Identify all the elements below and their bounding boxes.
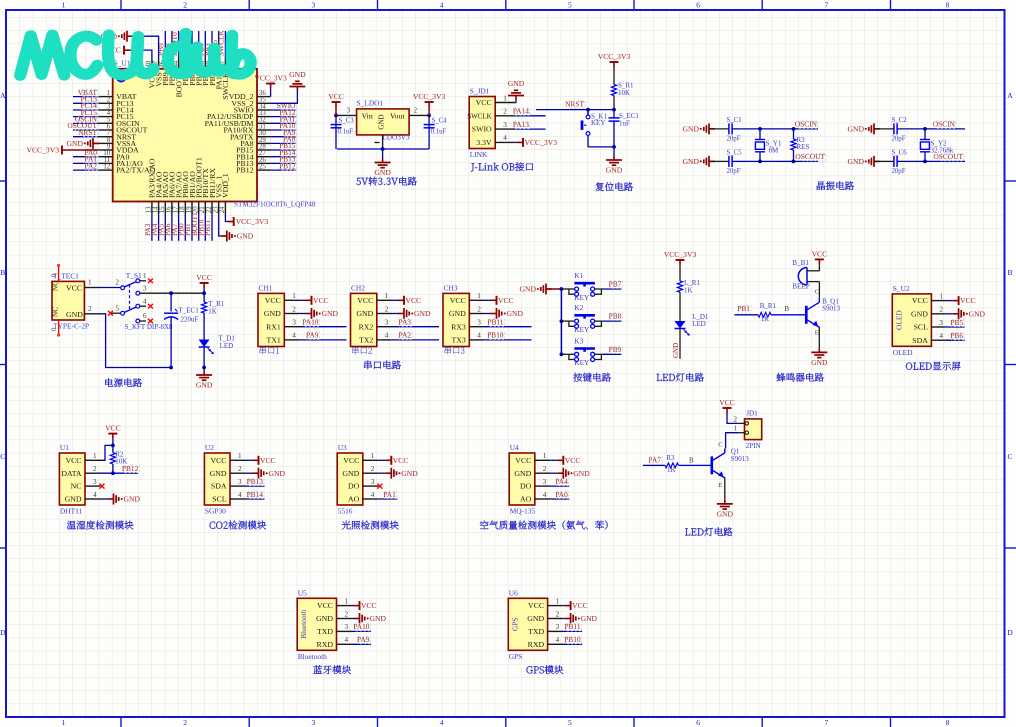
svg-text:2: 2	[543, 465, 547, 473]
svg-text:20pF: 20pF	[892, 168, 906, 175]
svg-text:0: 0	[51, 327, 58, 331]
svg-text:GND: GND	[269, 469, 286, 478]
svg-text:PB9: PB9	[609, 345, 622, 354]
svg-text:3: 3	[238, 478, 242, 486]
svg-text:2: 2	[371, 465, 375, 473]
svg-text:RES: RES	[797, 143, 810, 151]
svg-text:VCC_3V3: VCC_3V3	[27, 146, 60, 155]
svg-text:GND: GND	[683, 157, 700, 166]
svg-text:GND: GND	[969, 309, 986, 318]
svg-text:PB10: PB10	[564, 635, 581, 644]
wire nrst junction to cap	[586, 108, 590, 112]
svg-text:S_JD1: S_JD1	[470, 87, 490, 96]
svg-text:OSCIN: OSCIN	[933, 120, 956, 129]
svg-text:1: 1	[503, 94, 507, 102]
net PB11 at CH3 pin3	[484, 318, 532, 327]
svg-text:VCC: VCC	[393, 456, 409, 465]
svg-text:24: 24	[219, 206, 226, 213]
svg-text:3: 3	[345, 623, 349, 631]
vcc at U6 pin1	[563, 601, 588, 610]
svg-text:VCC_3V3: VCC_3V3	[254, 74, 287, 83]
svg-text:PA14: PA14	[513, 107, 529, 116]
vcc buzzer	[812, 249, 828, 270]
svg-text:3: 3	[93, 478, 97, 486]
svg-text:1K: 1K	[208, 308, 217, 316]
svg-text:4: 4	[477, 332, 481, 340]
svg-text:4: 4	[385, 332, 389, 340]
svg-text:VCC_3V3: VCC_3V3	[525, 138, 558, 147]
wire led middle	[679, 292, 681, 321]
svg-text:U4: U4	[510, 443, 519, 452]
net PA7 led2	[643, 455, 665, 465]
svg-text:S_C4: S_C4	[432, 117, 448, 124]
net PA9 at U5 pin4	[352, 635, 371, 644]
svg-text:MQ-135: MQ-135	[510, 507, 536, 516]
svg-text:5: 5	[116, 304, 120, 312]
net PA9 at CH1 pin4	[299, 331, 347, 340]
typec gnd pin 2 wire down to rail	[84, 305, 171, 368]
svg-text:S_C6: S_C6	[892, 149, 908, 156]
svg-text:2: 2	[503, 108, 507, 116]
gnd at oled pin2	[946, 308, 986, 319]
key K3	[561, 337, 622, 367]
resistor B_R1 1K	[758, 302, 777, 323]
mcu top pins 37-48	[146, 29, 231, 99]
capacitor S_C6 20pF	[874, 149, 907, 175]
svg-text:PB10: PB10	[487, 331, 504, 340]
svg-text:1: 1	[88, 279, 92, 287]
gnd crystal top	[683, 123, 715, 134]
svg-text:SWCLK: SWCLK	[467, 112, 492, 120]
serial CH3 body	[443, 283, 484, 346]
key K1	[561, 272, 622, 302]
svg-text:PB11: PB11	[203, 220, 212, 236]
svg-text:U1: U1	[60, 443, 69, 452]
svg-text:4: 4	[371, 491, 375, 499]
svg-text:CH3: CH3	[444, 283, 458, 292]
svg-text:RX3: RX3	[451, 322, 466, 331]
svg-text:1: 1	[345, 597, 349, 605]
wire buzzer to collector	[818, 282, 820, 298]
vcc at mcu pin 48 top	[105, 46, 152, 58]
gnd at U4 pin2	[550, 468, 590, 479]
serial CH2 body	[351, 283, 392, 346]
gnd power circuit	[196, 368, 213, 390]
svg-text:GND: GND	[508, 79, 525, 88]
svg-text:STM32F103C8T6_LQFP48: STM32F103C8T6_LQFP48	[234, 201, 316, 209]
svg-text:A: A	[1007, 91, 1013, 100]
svg-text:VCC: VCC	[812, 249, 828, 258]
svg-text:32.768k: 32.768k	[931, 147, 954, 155]
svg-text:RXD: RXD	[528, 640, 545, 649]
svg-text:1: 1	[93, 452, 97, 460]
serial1 label	[260, 347, 279, 355]
svg-text:VCC: VCC	[313, 296, 329, 305]
capacitor S_C1 20pF	[709, 117, 742, 142]
svg-text:GND: GND	[520, 285, 537, 294]
crystal S_Y1 8M	[755, 127, 782, 163]
svg-text:4: 4	[440, 1, 444, 10]
svg-text:C: C	[1007, 452, 1012, 461]
svg-text:NC: NC	[52, 307, 60, 317]
crystal S_Y2 32.768k	[920, 127, 954, 163]
svg-text:4: 4	[345, 636, 349, 644]
led L_D1	[675, 313, 709, 336]
svg-text:PB1: PB1	[737, 304, 750, 313]
svg-text:2: 2	[88, 305, 92, 313]
mcu right pins 25-36	[205, 90, 297, 175]
key bus wire	[546, 287, 563, 356]
svg-text:SDA: SDA	[211, 482, 227, 491]
svg-text:GND: GND	[264, 309, 281, 318]
svg-text:GND: GND	[316, 614, 333, 623]
svg-text:VCC: VCC	[265, 296, 281, 305]
svg-text:PB5: PB5	[950, 318, 963, 327]
svg-text:PB13: PB13	[247, 477, 264, 486]
svg-text:OSCOUT: OSCOUT	[795, 152, 825, 161]
svg-text:DHT11: DHT11	[60, 507, 83, 516]
svg-text:VCC: VCC	[476, 98, 492, 107]
svg-text:GND: GND	[342, 469, 359, 478]
vcc at U5 pin1	[352, 601, 377, 610]
svg-text:S_C5: S_C5	[727, 149, 743, 156]
connector JD1 2PIN	[734, 410, 762, 451]
svg-text:VCC: VCC	[719, 398, 735, 407]
net NRST wire	[536, 100, 616, 112]
svg-text:PA0: PA0	[555, 490, 568, 499]
svg-text:VCC: VCC	[406, 296, 422, 305]
gnd at mcu pin 35	[271, 70, 307, 103]
svg-text:12: 12	[103, 164, 110, 171]
svg-text:U3: U3	[338, 443, 347, 452]
svg-text:2: 2	[292, 305, 296, 313]
svg-text:3: 3	[385, 319, 389, 327]
svg-text:2: 2	[385, 305, 389, 313]
svg-text:K1: K1	[574, 272, 583, 280]
svg-text:1: 1	[143, 272, 147, 280]
svg-text:VCC_3V3: VCC_3V3	[236, 217, 269, 226]
ldo pin wires	[334, 107, 431, 151]
svg-text:VCC: VCC	[196, 273, 212, 282]
svg-text:VCC: VCC	[328, 92, 344, 101]
svg-text:3: 3	[477, 319, 481, 327]
vcc_3v3 reset top	[598, 52, 631, 67]
svg-text:PB12: PB12	[279, 161, 296, 170]
title Bluetooth	[313, 665, 351, 674]
svg-text:GND: GND	[527, 614, 544, 623]
svg-text:S_KFT DIP-8X8: S_KFT DIP-8X8	[125, 323, 173, 331]
svg-text:2PIN: 2PIN	[746, 442, 762, 450]
svg-text:PA9: PA9	[357, 635, 370, 644]
svg-text:GND: GND	[672, 343, 680, 358]
svg-text:1: 1	[292, 292, 296, 300]
svg-text:JD1: JD1	[746, 410, 758, 418]
svg-text:D: D	[0, 628, 6, 637]
net PB6 at oled pin4	[946, 331, 965, 340]
svg-text:K3: K3	[574, 337, 583, 345]
vcc at oled pin1	[946, 296, 976, 305]
svg-text:VDD_1: VDD_1	[221, 173, 230, 198]
svg-text:VCC: VCC	[450, 296, 466, 305]
svg-text:TXD: TXD	[528, 627, 544, 636]
svg-text:GND: GND	[507, 309, 524, 318]
svg-text:4: 4	[543, 491, 547, 499]
svg-text:1: 1	[543, 452, 547, 460]
svg-text:0.1uF: 0.1uF	[338, 128, 354, 135]
svg-text:PA4: PA4	[555, 477, 568, 486]
gnd ldo	[374, 149, 391, 177]
svg-text:PB8: PB8	[609, 312, 622, 321]
svg-text:GND: GND	[356, 309, 373, 318]
capacitor S_C2 20pF	[874, 117, 907, 142]
svg-text:S9013: S9013	[731, 455, 749, 463]
svg-text:C: C	[718, 441, 723, 448]
svg-text:VCC: VCC	[317, 601, 333, 610]
svg-text:VCC: VCC	[912, 296, 928, 305]
svg-text:3: 3	[312, 1, 316, 10]
svg-text:1uF: 1uF	[619, 120, 630, 128]
svg-text:S_C2: S_C2	[892, 117, 908, 124]
gnd key circuit	[520, 284, 552, 295]
svg-text:GND: GND	[237, 232, 254, 241]
resistor L_R1 1K	[677, 279, 700, 294]
vcc at CH2 pin1	[391, 296, 421, 305]
svg-text:VCC: VCC	[343, 456, 359, 465]
svg-text:1K: 1K	[667, 466, 676, 474]
led T_D1	[199, 335, 236, 370]
reset bottom rail	[588, 145, 616, 156]
svg-text:SDA: SDA	[912, 336, 928, 345]
MCUclub logo	[20, 33, 250, 75]
capacitor S_C4 0.1uF	[424, 117, 448, 135]
svg-text:DO: DO	[348, 482, 360, 491]
svg-text:4: 4	[440, 718, 444, 727]
svg-text:VCC: VCC	[210, 456, 226, 465]
capacitor T_EC1 220uF	[164, 291, 199, 369]
svg-text:7: 7	[825, 718, 829, 727]
svg-text:PA13: PA13	[513, 120, 529, 129]
svg-text:PA2: PA2	[85, 161, 98, 170]
svg-text:RXD: RXD	[317, 640, 334, 649]
svg-text:3: 3	[543, 478, 547, 486]
svg-text:2: 2	[939, 306, 943, 314]
net PA13 at jlink pin 3	[513, 120, 546, 129]
svg-text:VCC: VCC	[357, 296, 373, 305]
svg-text:GND: GND	[811, 358, 828, 367]
vcc at CH3 pin1	[484, 296, 514, 305]
net PB14 at U2 pin4	[246, 490, 265, 499]
svg-text:K2: K2	[574, 304, 583, 312]
svg-text:VCC: VCC	[260, 456, 276, 465]
typec vcc pin 1 wire to switch	[84, 279, 120, 288]
svg-text:0: 0	[51, 273, 58, 277]
svg-text:S9013: S9013	[822, 305, 840, 313]
vcc_3v3 at mcu pin 36	[254, 74, 287, 97]
svg-text:GND: GND	[606, 166, 623, 175]
wire led bottom with gnd net label	[672, 329, 680, 359]
svg-text:8: 8	[946, 718, 950, 727]
serial2 label	[352, 347, 372, 355]
gnd at U1 pin4	[101, 494, 141, 505]
svg-text:GND: GND	[449, 309, 466, 318]
svg-text:T_EC1: T_EC1	[179, 307, 200, 315]
svg-text:PB12: PB12	[236, 166, 253, 175]
svg-text:1: 1	[371, 452, 375, 460]
gnd crystal bottom	[683, 156, 715, 167]
vcc power port ldo input	[328, 92, 344, 115]
svg-text:PA10: PA10	[353, 622, 369, 631]
svg-text:NC: NC	[52, 281, 60, 291]
svg-text:TX2: TX2	[359, 336, 373, 345]
vcc_3v3 at jlink pin 4	[516, 138, 557, 147]
svg-text:GND: GND	[573, 469, 590, 478]
typec T_TEC1 body	[52, 272, 90, 331]
gnd at CH2 pin2	[391, 308, 431, 319]
svg-text:TX1: TX1	[267, 336, 281, 345]
svg-text:3: 3	[346, 107, 350, 115]
svg-text:B: B	[1007, 268, 1012, 277]
svg-text:PA1: PA1	[383, 490, 396, 499]
svg-text:4: 4	[238, 491, 242, 499]
svg-text:1: 1	[734, 425, 738, 433]
svg-text:VCC_3V3: VCC_3V3	[664, 250, 697, 259]
svg-text:Bluetooth: Bluetooth	[299, 609, 308, 638]
no-connect at U3 pin3	[377, 484, 382, 489]
svg-text:1: 1	[939, 292, 943, 300]
svg-text:T_S1: T_S1	[126, 271, 142, 280]
net PB13 at U2 pin3	[246, 477, 265, 486]
svg-text:1K: 1K	[761, 315, 770, 323]
net PA1 at U3 pin4	[378, 490, 397, 499]
svg-text:U2: U2	[205, 443, 214, 452]
svg-text:6: 6	[143, 312, 147, 320]
gnd crystal bottom	[848, 156, 880, 167]
module U1 DHT11 body	[59, 443, 100, 516]
svg-text:4: 4	[292, 332, 296, 340]
vcc at CH1 pin1	[299, 296, 329, 305]
mcu U1 STM32F103C8T6 body	[113, 58, 316, 208]
svg-text:OLED: OLED	[893, 348, 913, 357]
svg-text:KEY: KEY	[574, 326, 590, 334]
svg-text:VCC: VCC	[66, 284, 82, 293]
no-connect at U1 pin3	[100, 484, 105, 489]
vcc pull-up R2 for DHT11	[101, 424, 128, 476]
svg-text:KEY: KEY	[574, 359, 590, 367]
gnd at mcu pin 47 VSS top	[101, 31, 159, 58]
net PB5 at oled pin3	[946, 318, 965, 327]
title key	[573, 373, 611, 382]
svg-text:PA2: PA2	[399, 331, 412, 340]
key S_K1	[582, 110, 607, 147]
svg-text:GND: GND	[210, 469, 227, 478]
title buzzer	[777, 373, 824, 382]
svg-text:NC: NC	[71, 482, 82, 491]
svg-text:GND: GND	[581, 614, 598, 623]
svg-text:PB6: PB6	[950, 331, 963, 340]
resistor T_R1 1K	[202, 300, 225, 340]
svg-text:Bluetooth: Bluetooth	[298, 652, 327, 661]
svg-text:PB14: PB14	[247, 490, 264, 499]
svg-text:S_C1: S_C1	[727, 117, 742, 124]
vcc led2	[719, 398, 739, 423]
svg-text:SCL: SCL	[914, 323, 929, 332]
svg-text:3: 3	[503, 121, 507, 129]
svg-text:1: 1	[238, 452, 242, 460]
net PB10 at CH3 pin4	[484, 331, 532, 340]
svg-text:GND: GND	[322, 309, 339, 318]
svg-text:20pF: 20pF	[727, 168, 741, 175]
net PA4 at U4 pin3	[550, 477, 569, 486]
svg-text:E: E	[815, 330, 819, 337]
wire led vertical top	[679, 265, 681, 281]
title reset	[596, 182, 634, 191]
svg-text:5516: 5516	[338, 507, 353, 516]
svg-text:4: 4	[143, 297, 147, 305]
svg-text:PB7: PB7	[609, 280, 622, 289]
svg-text:B: B	[784, 305, 789, 313]
svg-text:OLED: OLED	[894, 310, 903, 330]
svg-text:GND: GND	[67, 139, 84, 148]
svg-text:3: 3	[371, 478, 375, 486]
svg-text:4: 4	[556, 636, 560, 644]
svg-text:VCC_3V3: VCC_3V3	[413, 92, 446, 101]
svg-text:VCC: VCC	[105, 424, 121, 433]
svg-text:VCC: VCC	[960, 296, 976, 305]
wire oscout	[732, 152, 826, 161]
svg-text:TXD: TXD	[317, 627, 333, 636]
title led2	[685, 527, 732, 536]
svg-text:GND: GND	[717, 509, 734, 518]
wire oscin	[732, 120, 818, 129]
title oled	[906, 362, 961, 371]
vcc_3v3 at mcu pin 24 VDD_1	[225, 215, 268, 227]
module U5 Bluetooth body	[297, 588, 352, 661]
svg-text:5: 5	[568, 718, 572, 727]
svg-text:1: 1	[62, 718, 66, 727]
svg-text:3: 3	[939, 319, 943, 327]
gnd at U2 pin2	[246, 468, 286, 479]
vcc at U3 pin1	[378, 456, 408, 465]
svg-text:U5: U5	[298, 588, 307, 597]
svg-text:SCL: SCL	[212, 495, 227, 504]
svg-text:RX2: RX2	[359, 322, 374, 331]
svg-text:4: 4	[93, 491, 97, 499]
svg-text:SWIO: SWIO	[472, 125, 492, 134]
svg-text:10K: 10K	[115, 457, 127, 465]
transistor B_Q1 S9013	[806, 289, 840, 337]
svg-text:8: 8	[946, 1, 950, 10]
svg-text:220uF: 220uF	[181, 315, 199, 323]
svg-text:GND: GND	[911, 309, 928, 318]
gnd at jlink pin 1	[508, 79, 525, 103]
svg-text:GND: GND	[370, 614, 387, 623]
svg-text:25: 25	[259, 164, 266, 171]
gnd at U6 pin2	[563, 613, 597, 624]
svg-text:PB11: PB11	[564, 622, 580, 631]
gnd at mcu pin 23 VSS_1	[219, 215, 254, 242]
svg-text:3: 3	[143, 285, 147, 293]
svg-text:GND: GND	[289, 70, 306, 79]
svg-text:VCC: VCC	[361, 601, 377, 610]
gnd crystal top	[848, 123, 880, 134]
svg-text:GND: GND	[414, 309, 431, 318]
svg-text:2: 2	[183, 1, 187, 10]
svg-text:20pF: 20pF	[892, 135, 906, 142]
typec shield pins 0	[51, 264, 60, 337]
svg-text:GND: GND	[401, 469, 418, 478]
capacitor S_C3 0.1uF	[331, 117, 355, 135]
svg-text:GPS: GPS	[510, 618, 519, 632]
